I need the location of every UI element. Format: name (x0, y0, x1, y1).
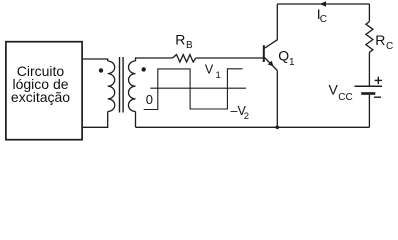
secondary top lead (136, 58, 173, 61)
wire box to transformer primary (top) (82, 59, 108, 61)
svg-text:V: V (205, 63, 214, 77)
collector vertical wire (276, 4, 278, 41)
driver block label (11, 63, 70, 105)
top rail (277, 3, 369, 5)
transformer T1 secondary winding (128, 61, 135, 111)
Q1 label (278, 48, 295, 69)
svg-text:excitação: excitação (11, 89, 70, 105)
svg-text:2: 2 (244, 111, 249, 122)
transformer core line 1 (119, 57, 121, 113)
RB label (175, 32, 193, 51)
svg-text:V: V (329, 82, 339, 98)
transformer T1 primary winding (108, 61, 115, 111)
emitter vertical wire (276, 71, 278, 128)
battery VCC short (-) plate (361, 92, 375, 95)
svg-text:C: C (320, 14, 327, 25)
Q1 emitter diagonal (265, 58, 278, 71)
battery bottom lead (368, 95, 370, 128)
secondary phasing dot (142, 67, 146, 71)
bottom rail (136, 126, 370, 128)
svg-text:1: 1 (289, 57, 295, 68)
IC label (317, 6, 327, 25)
svg-text:B: B (186, 40, 193, 51)
svg-text:R: R (375, 32, 385, 48)
RC top lead (368, 4, 370, 22)
VCC label (329, 82, 353, 103)
wire box to transformer primary (bottom) (82, 112, 108, 128)
secondary bottom lead (135, 112, 137, 128)
resistor RB zigzag (173, 55, 196, 62)
waveform zero axis (150, 87, 246, 89)
svg-text:R: R (175, 32, 185, 48)
Q1 collector diagonal (265, 40, 278, 48)
wire RB to base (196, 57, 264, 59)
svg-text:CC: CC (338, 92, 352, 103)
battery plus sign (375, 77, 382, 84)
svg-text:1: 1 (216, 70, 221, 81)
Q1 emitter arrowhead (268, 61, 274, 67)
svg-text:0: 0 (146, 92, 153, 107)
transistor Q1 base bar (263, 45, 265, 62)
svg-text:C: C (386, 41, 393, 52)
resistor RC zigzag (366, 22, 373, 53)
waveform label -V2 (231, 104, 249, 122)
battery VCC long (+) plate (355, 85, 383, 87)
primary phasing dot (99, 68, 103, 72)
battery minus sign (374, 96, 381, 98)
svg-text:Q: Q (278, 48, 289, 64)
RC label (375, 32, 393, 52)
driver block box (6, 42, 82, 140)
waveform label V1 (205, 63, 221, 81)
IC current arrow (320, 1, 326, 7)
waveform square wave (144, 69, 243, 110)
RC bottom lead to battery (368, 52, 370, 86)
emitter-rail junction (276, 126, 280, 130)
transformer core line 2 (122, 57, 124, 113)
